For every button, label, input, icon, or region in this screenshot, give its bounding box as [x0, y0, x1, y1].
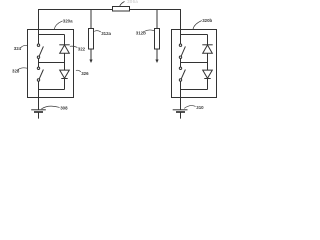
- svg-text:320b: 320b: [202, 18, 212, 23]
- svg-text:306a: 306a: [127, 0, 138, 4]
- svg-text:322: 322: [78, 47, 86, 52]
- svg-text:326: 326: [81, 71, 89, 76]
- svg-text:324: 324: [14, 46, 22, 51]
- svg-text:312a: 312a: [101, 31, 111, 36]
- svg-text:312b: 312b: [136, 31, 146, 36]
- svg-text:308: 308: [60, 106, 68, 111]
- svg-text:320a: 320a: [63, 18, 73, 23]
- svg-text:310: 310: [196, 105, 204, 110]
- svg-text:328: 328: [12, 68, 20, 73]
